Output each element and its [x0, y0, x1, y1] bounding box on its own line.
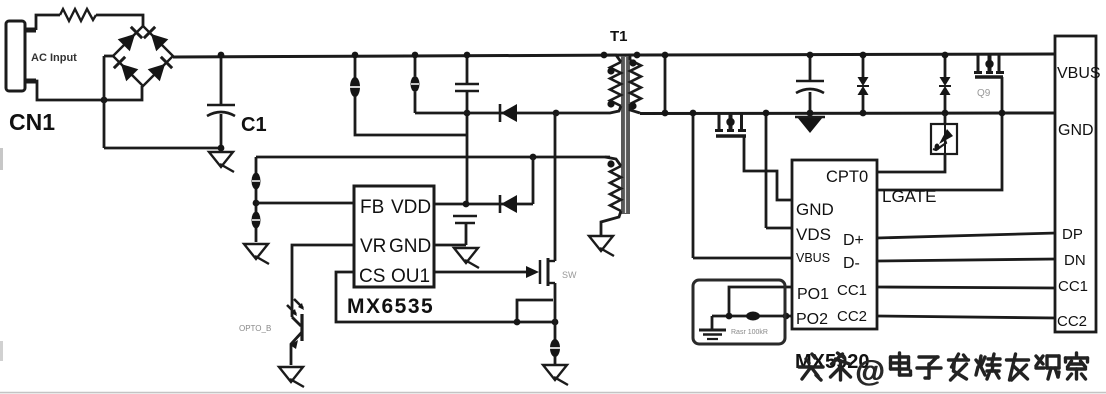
svg-text:CC2: CC2 [1057, 313, 1087, 330]
svg-text:VDD: VDD [391, 197, 431, 218]
svg-text:Q9: Q9 [977, 88, 991, 99]
svg-text:CC2: CC2 [837, 308, 867, 325]
svg-text:PO1: PO1 [797, 286, 829, 303]
svg-text:VBUS: VBUS [796, 251, 830, 265]
svg-text:AC Input: AC Input [31, 52, 77, 64]
svg-text:C1: C1 [241, 114, 267, 136]
svg-text:D+: D+ [843, 232, 864, 249]
svg-text:GND: GND [1058, 122, 1094, 139]
svg-text:Rasr 100kR: Rasr 100kR [731, 329, 768, 336]
svg-text:LGATE: LGATE [882, 187, 936, 206]
svg-text:CN1: CN1 [9, 109, 55, 135]
svg-text:CC1: CC1 [1058, 278, 1088, 295]
svg-text:@: @ [856, 355, 885, 388]
svg-text:OPTO_B: OPTO_B [239, 324, 271, 333]
svg-text:VBUS: VBUS [1057, 65, 1101, 82]
svg-text:D-: D- [843, 255, 860, 272]
svg-text:T1: T1 [610, 28, 628, 45]
svg-text:SW: SW [562, 270, 577, 280]
svg-text:DP: DP [1062, 226, 1083, 243]
svg-text:OU1: OU1 [391, 266, 430, 287]
svg-text:CPT0: CPT0 [826, 168, 868, 186]
svg-text:CS: CS [359, 266, 385, 287]
svg-text:MX6535: MX6535 [347, 295, 434, 318]
svg-text:DN: DN [1064, 252, 1086, 269]
svg-text:VR: VR [360, 236, 386, 257]
svg-text:CC1: CC1 [837, 282, 867, 299]
svg-text:GND: GND [389, 236, 431, 257]
svg-text:VDS: VDS [796, 225, 831, 244]
svg-text:GND: GND [796, 200, 834, 219]
svg-text:FB: FB [360, 197, 384, 218]
svg-text:PO2: PO2 [796, 311, 828, 328]
